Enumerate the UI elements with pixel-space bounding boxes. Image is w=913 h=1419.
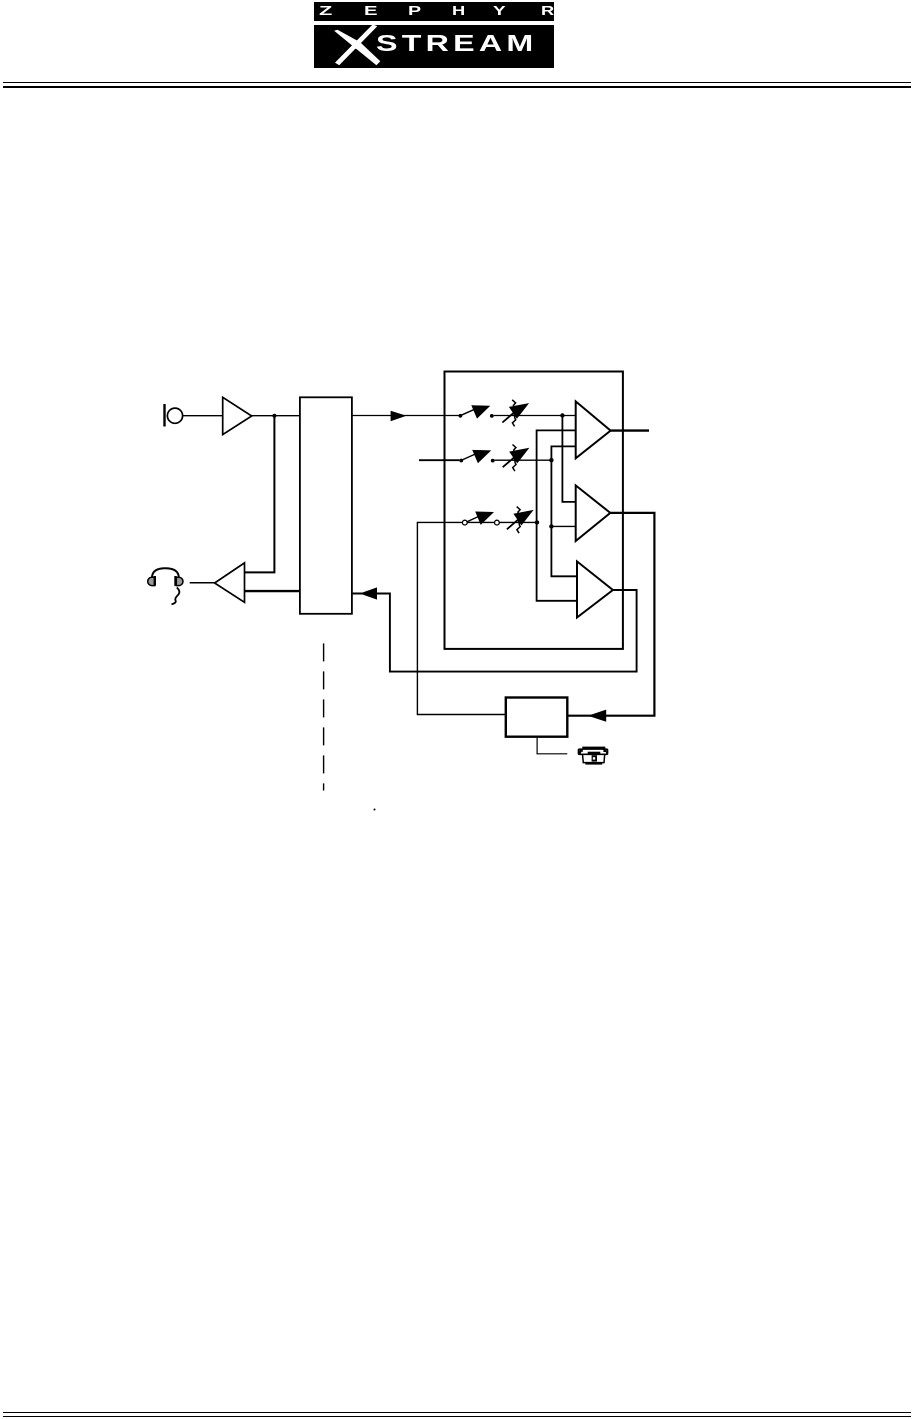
node row3 bus junction: [535, 520, 539, 524]
monitor amp U2: [576, 401, 611, 458]
logo bar ZEPHYR: [314, 2, 554, 21]
top double rule: [3, 82, 911, 83]
mic preamp A1: [223, 397, 252, 434]
node row1 bus junction: [560, 413, 564, 417]
hybrid box: [506, 698, 568, 737]
headphone amp A2: [215, 563, 245, 602]
studio amp U3: [576, 485, 611, 541]
wire hybrid to phone: [537, 737, 567, 754]
wire bus v2 to U2 and U4: [551, 446, 577, 576]
wire v2 to U3 lower input: [551, 525, 575, 527]
X crossing blob: [353, 40, 361, 48]
wire mic sidetone to headphone amp: [245, 416, 275, 573]
wire switch2 to bus: [495, 459, 552, 461]
wire U3 output to hybrid: [567, 513, 654, 716]
wire mic to amp: [183, 415, 223, 417]
stray period dot: [374, 809, 376, 811]
microphone MIC: [165, 404, 183, 427]
attenuator P2: [503, 445, 530, 472]
node v2 to U3 junction: [549, 524, 553, 528]
wire matrix to headphone amp: [245, 590, 300, 592]
send amp U4: [577, 561, 613, 617]
wire headphone amp output: [190, 582, 215, 584]
arrow left into hybrid: [588, 710, 606, 722]
switch SW2: [459, 450, 494, 463]
mixer box: [445, 372, 623, 649]
arrow left into matrix: [360, 587, 377, 599]
wire U2 output: [611, 429, 649, 431]
matrix box U1: [300, 397, 352, 614]
wire phone receive riser: [417, 522, 537, 714]
wire bus v1 to U2 and U4: [537, 430, 577, 600]
switch SW1: [459, 405, 494, 418]
logo bar XSTREAM: [314, 25, 554, 69]
phone icon: [578, 747, 608, 765]
wire amp to matrix: [252, 415, 300, 417]
wire matrix to mixer row1: [352, 415, 459, 417]
attenuator P3: [507, 507, 534, 534]
node row2 bus junction: [549, 458, 553, 462]
headphones icon: [148, 568, 183, 604]
X brush stroke upper-right to lower-left: [335, 24, 377, 65]
node mic junction: [272, 414, 276, 418]
wire switch1 to amp: [494, 415, 576, 417]
arrow right row1: [391, 411, 407, 422]
wire bus v3 to U3: [562, 416, 575, 502]
switch SW3: [462, 512, 499, 525]
wire U4 output feedback to matrix: [352, 590, 637, 672]
X brush stroke upper-left to lower-right: [334, 29, 360, 47]
bottom double rule: [3, 1412, 911, 1413]
wire row2 input stub: [419, 459, 459, 461]
dashed DSP boundary: [323, 643, 325, 790]
attenuator P1: [502, 400, 529, 427]
